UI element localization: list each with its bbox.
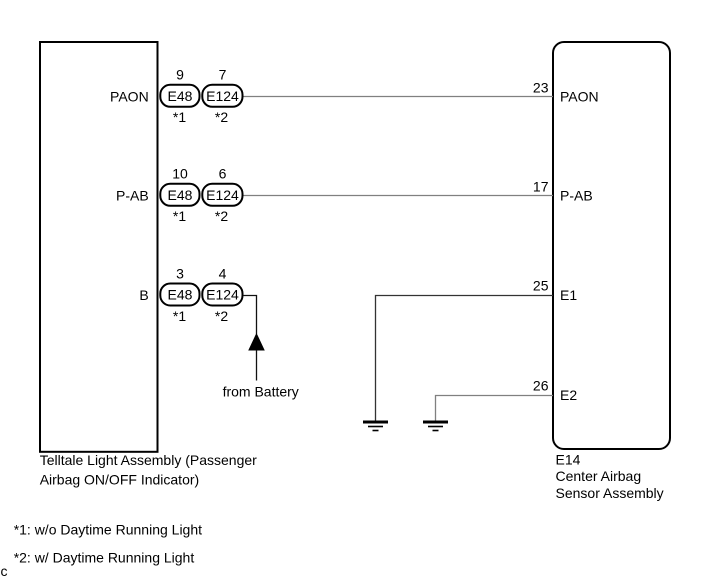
svg-text:P-AB: P-AB xyxy=(116,188,149,204)
footnote marker *2 row3 xyxy=(215,308,228,324)
node label P-AB (right box) xyxy=(560,188,593,204)
pin 10 of connector E48 row2 xyxy=(172,166,188,182)
wire E1 row (dark) xyxy=(376,296,554,421)
connector E48 row2 xyxy=(160,184,199,206)
svg-text:E124: E124 xyxy=(206,88,239,104)
svg-text:*2: w/ Daytime Running Light: *2: w/ Daytime Running Light xyxy=(14,549,195,565)
svg-text:*1: *1 xyxy=(173,208,186,224)
svg-text:E124: E124 xyxy=(206,287,239,303)
svg-text:*1: *1 xyxy=(173,308,186,324)
svg-text:E48: E48 xyxy=(168,88,193,104)
ground symbol (E1) xyxy=(363,422,388,431)
svg-text:E48: E48 xyxy=(168,287,193,303)
svg-text:6: 6 xyxy=(219,166,227,182)
svg-text:c: c xyxy=(1,563,8,579)
svg-text:17: 17 xyxy=(533,178,549,194)
pin 23 of right box xyxy=(533,79,549,95)
svg-text:10: 10 xyxy=(172,166,188,182)
node label PAON (left box) xyxy=(110,89,149,105)
pin 26 of right box xyxy=(533,377,549,393)
ground symbol (E2) xyxy=(423,422,448,431)
svg-text:25: 25 xyxy=(533,277,549,293)
wire E2 row (gray) xyxy=(436,396,554,421)
pin 17 of right box xyxy=(533,178,549,194)
footnote marker *2 row1 xyxy=(215,109,228,125)
wire P-AB row (gray) xyxy=(243,195,553,197)
footnote marker *1 row2 xyxy=(173,208,186,224)
svg-text:E124: E124 xyxy=(206,187,239,203)
svg-text:4: 4 xyxy=(219,266,227,282)
node label P-AB (left box) xyxy=(116,188,149,204)
connector E124 row2 xyxy=(202,184,242,206)
node label PAON (right box) xyxy=(560,89,599,105)
svg-text:Airbag ON/OFF Indicator): Airbag ON/OFF Indicator) xyxy=(40,472,200,488)
svg-text:E48: E48 xyxy=(168,187,193,203)
connector E48 row1 xyxy=(160,85,199,107)
footnote marker *1 row3 xyxy=(173,308,186,324)
svg-text:P-AB: P-AB xyxy=(560,188,593,204)
svg-text:7: 7 xyxy=(219,67,227,83)
svg-text:Sensor Assembly: Sensor Assembly xyxy=(556,485,664,501)
footnote *1 definition xyxy=(14,521,202,537)
pin 6 of connector E124 row2 xyxy=(219,166,227,182)
svg-text:Telltale Light Assembly (Passe: Telltale Light Assembly (Passenger xyxy=(40,452,257,468)
connector E124 row3 xyxy=(202,284,242,306)
svg-text:*2: *2 xyxy=(215,109,228,125)
label from Battery xyxy=(223,383,299,399)
connector E48 row3 xyxy=(160,284,199,306)
svg-text:23: 23 xyxy=(533,79,549,95)
svg-text:E1: E1 xyxy=(560,287,577,303)
svg-text:*1: w/o Daytime Running Light: *1: w/o Daytime Running Light xyxy=(14,521,202,537)
wire from E124 row3 to battery drop (dark) xyxy=(243,296,257,335)
wire PAON row (gray) xyxy=(243,96,553,98)
footnote *2 definition xyxy=(14,549,195,565)
caption right box line 3 xyxy=(556,485,664,501)
svg-text:9: 9 xyxy=(176,67,184,83)
svg-text:Center Airbag: Center Airbag xyxy=(556,468,642,484)
arrowhead from Battery (points up) xyxy=(249,334,264,350)
connector E124 row1 xyxy=(202,85,242,107)
footnote marker *1 row1 xyxy=(173,109,186,125)
pin 4 of connector E124 row3 xyxy=(219,266,227,282)
pin 7 of connector E124 row1 xyxy=(219,67,227,83)
svg-text:*1: *1 xyxy=(173,109,186,125)
wire below arrow to battery stub xyxy=(256,350,258,381)
svg-text:from Battery: from Battery xyxy=(223,383,299,399)
svg-text:PAON: PAON xyxy=(560,89,599,105)
svg-text:26: 26 xyxy=(533,377,549,393)
svg-text:B: B xyxy=(139,287,148,303)
svg-text:*2: *2 xyxy=(215,308,228,324)
node label E1 (right box) xyxy=(560,287,577,303)
svg-text:E14: E14 xyxy=(556,452,581,468)
pin 3 of connector E48 row3 xyxy=(176,266,184,282)
svg-text:*2: *2 xyxy=(215,208,228,224)
left box: Telltale Light Assembly xyxy=(40,42,158,452)
node label B (left box) xyxy=(139,287,148,303)
footnote marker *2 row2 xyxy=(215,208,228,224)
pin 9 of connector E48 row1 xyxy=(176,67,184,83)
pin 25 of right box xyxy=(533,277,549,293)
caption right box: E14 xyxy=(556,452,581,468)
svg-text:3: 3 xyxy=(176,266,184,282)
svg-text:E2: E2 xyxy=(560,387,577,403)
right box: Center Airbag Sensor Assembly E14 xyxy=(553,42,670,449)
caption left box line 1 xyxy=(40,452,257,468)
node label E2 (right box) xyxy=(560,387,577,403)
caption left box line 2 xyxy=(40,472,200,488)
stray character c (bottom left) xyxy=(1,563,8,579)
svg-text:PAON: PAON xyxy=(110,89,149,105)
caption right box line 2 xyxy=(556,468,642,484)
